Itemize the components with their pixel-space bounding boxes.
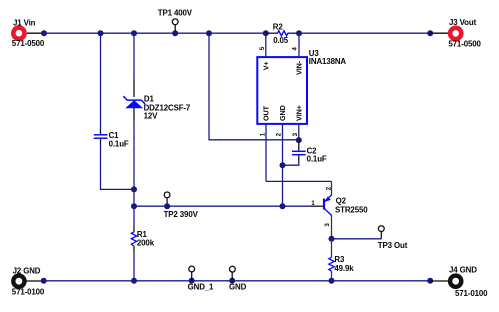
test point TP3 xyxy=(378,226,408,250)
test point TP2 xyxy=(164,192,199,219)
wire D1 lead top xyxy=(133,80,135,98)
connector J3 xyxy=(448,18,481,48)
wire OUT to collector xyxy=(266,180,332,182)
svg-text:TP3 Out: TP3 Out xyxy=(378,241,408,250)
node emitter TP3 xyxy=(329,236,335,242)
node J4 junction xyxy=(427,278,433,284)
svg-text:1: 1 xyxy=(311,200,315,207)
svg-text:2: 2 xyxy=(276,132,283,136)
node J2 junction xyxy=(41,278,47,284)
pin 3 stub VIN+ xyxy=(298,124,300,140)
svg-text:12V: 12V xyxy=(144,111,159,120)
svg-text:STR2550: STR2550 xyxy=(335,205,368,214)
connector J2 xyxy=(12,267,45,297)
node 390V xyxy=(131,203,137,209)
svg-text:R3: R3 xyxy=(334,255,345,264)
svg-text:INA138NA: INA138NA xyxy=(309,57,347,66)
svg-text:OUT: OUT xyxy=(261,105,270,121)
wire Q2 base lead xyxy=(310,205,323,207)
wire D1 to node xyxy=(133,121,135,189)
wire C2 to GND pin xyxy=(283,161,299,166)
svg-text:0.1uF: 0.1uF xyxy=(109,139,129,148)
wire bottom rail xyxy=(44,280,431,282)
wire top rail right xyxy=(299,32,430,34)
svg-text:GND: GND xyxy=(278,105,287,121)
node VIN+ tap xyxy=(206,30,212,36)
node TP1 tap xyxy=(172,30,178,36)
wire 390V vertical xyxy=(133,189,135,206)
svg-text:3: 3 xyxy=(324,223,331,227)
connector J1 xyxy=(12,18,45,48)
pin 1 stub OUT xyxy=(265,124,267,181)
node R2 left xyxy=(263,30,269,36)
svg-text:4: 4 xyxy=(291,47,298,51)
test point GND_1 xyxy=(188,266,214,292)
svg-text:3: 3 xyxy=(292,132,299,136)
svg-text:49.9k: 49.9k xyxy=(334,264,354,273)
svg-text:J4 GND: J4 GND xyxy=(449,265,477,274)
node C1-D1 join xyxy=(131,186,137,192)
svg-text:571-0500: 571-0500 xyxy=(12,39,45,48)
wire J1 stub xyxy=(27,32,44,34)
svg-text:5: 5 xyxy=(259,46,266,50)
op-amp U3 xyxy=(257,49,346,124)
pin 4 stub xyxy=(298,33,300,57)
node R3 bottom xyxy=(329,278,335,284)
wire Q2 collector lead xyxy=(331,181,333,195)
node VIN+ C2 xyxy=(296,137,302,143)
node J3 junction xyxy=(427,30,433,36)
svg-text:0.1uF: 0.1uF xyxy=(307,155,327,164)
svg-text:J3 Vout: J3 Vout xyxy=(449,18,477,27)
pin 2 stub GND xyxy=(282,124,284,206)
node C1 tap xyxy=(98,30,104,36)
svg-text:VIN+: VIN+ xyxy=(294,105,303,121)
svg-text:Q2: Q2 xyxy=(336,197,347,206)
resistor R3 xyxy=(329,255,354,281)
wire C1 branch upper xyxy=(100,33,102,129)
node R1 bottom xyxy=(131,278,137,284)
pin 5 stub xyxy=(265,33,267,57)
test point GND xyxy=(229,266,247,291)
node GND-C2 join xyxy=(280,162,286,168)
svg-text:TP1 400V: TP1 400V xyxy=(158,9,193,18)
node J1 junction xyxy=(41,30,47,36)
svg-text:571-0500: 571-0500 xyxy=(448,40,481,49)
node D1 tap xyxy=(131,30,137,36)
svg-text:GND: GND xyxy=(229,283,247,292)
svg-text:2: 2 xyxy=(325,186,332,190)
wire D1 branch upper xyxy=(133,33,135,79)
wire Q2 emitter lead xyxy=(331,216,333,239)
wire top rail left xyxy=(44,32,266,34)
wire C1 branch lower xyxy=(101,145,135,190)
svg-text:0.05: 0.05 xyxy=(273,36,289,45)
svg-text:TP2 390V: TP2 390V xyxy=(164,210,199,219)
diode D1 xyxy=(123,94,191,120)
svg-text:571-0100: 571-0100 xyxy=(455,289,488,298)
wire J2 stub xyxy=(26,280,43,282)
svg-text:J1 Vin: J1 Vin xyxy=(13,18,36,27)
resistor R2 xyxy=(266,22,299,45)
svg-text:R2: R2 xyxy=(273,22,284,31)
wire 390V horizontal xyxy=(134,205,310,207)
resistor R1 xyxy=(131,226,154,252)
wire TP3 branch xyxy=(332,238,382,240)
node TP2 tap xyxy=(164,203,170,209)
wire J4 stub xyxy=(430,280,448,282)
transistor Q2 xyxy=(324,195,368,216)
wire R1 upper xyxy=(133,206,135,226)
capacitor C2 xyxy=(292,140,327,163)
node GND_1 tap xyxy=(189,278,195,284)
wire J3 stub xyxy=(430,32,448,34)
wire R1 lower xyxy=(133,252,135,281)
svg-text:200k: 200k xyxy=(137,238,155,247)
svg-text:J2 GND: J2 GND xyxy=(13,267,41,276)
connector J4 xyxy=(449,265,488,298)
svg-text:VIN-: VIN- xyxy=(294,60,303,75)
wire R3 upper xyxy=(331,239,333,257)
node GND net end xyxy=(280,203,286,209)
node R2 right xyxy=(296,30,302,36)
svg-text:D1: D1 xyxy=(144,94,155,103)
wire VIN+ feed xyxy=(209,33,299,140)
svg-text:V+: V+ xyxy=(261,61,270,70)
svg-text:571-0100: 571-0100 xyxy=(12,288,45,297)
svg-text:1: 1 xyxy=(260,132,267,136)
wire D1 lead bottom xyxy=(133,108,135,121)
node GND tap xyxy=(229,278,235,284)
test point TP1 xyxy=(158,9,193,32)
capacitor C1 xyxy=(94,129,129,148)
svg-text:GND_1: GND_1 xyxy=(188,283,214,292)
